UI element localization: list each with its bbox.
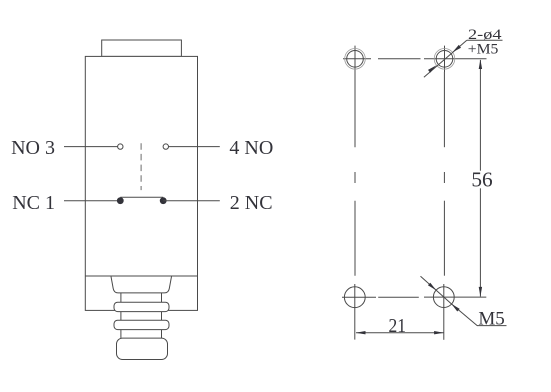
hole top-left circle [347,51,364,68]
dimension 56 line [479,60,481,171]
switch body [85,56,197,310]
plunger rib 1 [114,302,169,311]
hole bottom-right crosshair [424,296,486,298]
hole top-right crosshair [424,58,487,60]
svg-text:NC 1: NC 1 [12,192,55,214]
wire NO3 lead [64,146,118,148]
svg-text:4 NO: 4 NO [229,137,273,159]
dimension 56 arrows [479,59,482,69]
wire NC1 lead [64,200,120,202]
callout 2-dia4 leader [424,40,503,77]
hole bottom-left crosshair [342,296,376,298]
svg-text:+M5: +M5 [468,42,499,58]
plunger neck 2 [120,312,122,321]
plunger boss trapezoid [111,277,172,293]
plunger neck 1 [120,293,122,302]
hole top-left thread circle [345,49,366,70]
wire 4NO lead [169,146,220,148]
callout 2-dia4 arrowheads [453,45,462,52]
centerline right column [443,72,445,147]
dimension 21 line [356,332,444,334]
plunger tip cap [117,338,168,359]
wire 2NC lead [163,200,220,202]
contact NO 3 [118,144,123,149]
NC bridge wire [120,196,163,198]
svg-text:2-ø4: 2-ø4 [468,27,502,43]
svg-text:56: 56 [471,167,493,191]
body internal line [85,275,197,277]
plunger rib 2 [114,320,169,329]
switch top cap [102,40,182,56]
contact 2 NC [160,197,167,204]
svg-text:21: 21 [389,315,407,337]
svg-text:NO 3: NO 3 [11,137,55,159]
dimension 21 arrows [356,331,366,334]
callout M5 arrowheads [428,283,436,291]
svg-text:M5: M5 [478,309,504,330]
contact NC 1 [117,197,124,204]
hole bottom-left circle [344,287,365,308]
plunger neck 3 [120,330,122,339]
centerline top row [378,58,421,60]
hole top-right circle [436,51,453,68]
hole top-left crosshair [343,58,371,60]
svg-text:2 NC: 2 NC [230,192,273,214]
actuator dashed line [140,143,142,190]
hole top-right thread circle [434,49,455,70]
contact 4 NO [163,144,168,149]
centerline bottom row [378,296,419,298]
callout M5 leader [421,276,507,325]
hole bottom-right circle [433,287,454,308]
centerline left column [354,72,356,147]
